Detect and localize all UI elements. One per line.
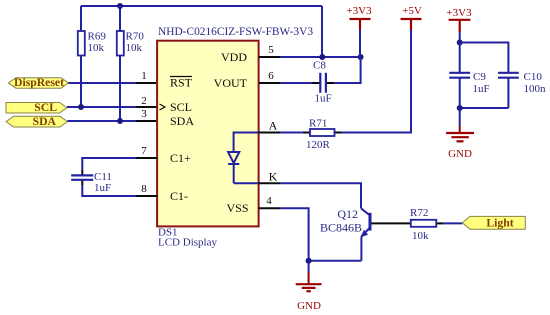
svg-text:DispReset: DispReset (14, 76, 64, 89)
pin name C1+ (170, 151, 191, 165)
svg-text:GND: GND (448, 148, 472, 160)
port SCL (6, 101, 67, 114)
svg-text:10k: 10k (412, 230, 429, 242)
pin number 5 (268, 44, 274, 56)
pin 1 stub (136, 82, 158, 84)
wire GND lead (308, 261, 310, 272)
svg-text:+3V3: +3V3 (446, 7, 472, 19)
pin number 7 (141, 145, 147, 157)
svg-text:C10: C10 (524, 71, 543, 83)
ground GND (right) (446, 126, 474, 160)
junction C9 bottom (457, 105, 463, 111)
svg-text:A: A (269, 119, 278, 133)
wire +3V3 right down to C9 node (459, 32, 461, 43)
svg-text:1: 1 (141, 70, 147, 82)
wire GND2 lead (459, 108, 461, 126)
junction top rail / R70 (117, 3, 123, 9)
capacitor C8 (313, 60, 334, 105)
wire pin6 VOUT to C8 (280, 82, 313, 84)
svg-text:VDD: VDD (221, 50, 247, 64)
svg-text:SDA: SDA (33, 115, 57, 128)
svg-text:6: 6 (268, 70, 274, 82)
pin name RST with overline (170, 76, 193, 90)
pin name VOUT (214, 76, 248, 90)
svg-text:8: 8 (141, 183, 147, 195)
svg-text:1uF: 1uF (94, 182, 111, 194)
pin name SDA (170, 114, 194, 128)
port Light (462, 216, 525, 229)
junction R70/SDA (117, 118, 123, 124)
junction VSS/GND/emitter (306, 258, 312, 264)
pin number 2 (141, 95, 147, 107)
wire top rail from R69/R70 to VDD drop (81, 6, 322, 57)
svg-text:SCL: SCL (34, 101, 57, 114)
pin number 3 (141, 108, 147, 120)
svg-text:+5V: +5V (402, 5, 422, 17)
svg-text:1uF: 1uF (315, 93, 332, 105)
svg-text:R71: R71 (309, 118, 327, 130)
junction C9/C10 top (457, 40, 463, 46)
pin 7 stub (136, 157, 158, 159)
pin K stub (259, 182, 280, 184)
pin number 4 (266, 195, 272, 207)
wire DispReset to pin 1 (68, 82, 136, 84)
wire C9/C10 bottom link (460, 83, 509, 108)
wire C11 to pin8 (82, 185, 136, 196)
svg-text:LCD Display: LCD Display (158, 237, 217, 249)
wire C9/C10 top link (460, 43, 509, 68)
resistor R70 (117, 6, 145, 121)
wire Q12 base to R72 (372, 222, 411, 224)
pin name K (269, 170, 278, 184)
junction VDD / top-rail drop (319, 54, 325, 60)
svg-text:BC846B: BC846B (320, 221, 362, 235)
pin 8 stub (136, 195, 158, 197)
capacitor C11 (71, 170, 112, 194)
svg-text:R70: R70 (126, 31, 145, 43)
pin 6 stub (259, 82, 280, 84)
svg-text:C8: C8 (313, 60, 326, 72)
pin A stub (259, 132, 280, 134)
svg-text:+3V3: +3V3 (346, 5, 372, 17)
svg-text:K: K (269, 170, 278, 184)
wire Q12 emitter down (360, 237, 362, 261)
pin name C1- (170, 189, 188, 203)
svg-text:NHD-C0216CIZ-FSW-FBW-3V3: NHD-C0216CIZ-FSW-FBW-3V3 (158, 26, 313, 38)
pin 4 stub (259, 207, 280, 209)
power +5V (401, 5, 422, 30)
pin name SCL with input chevron (160, 100, 193, 114)
svg-text:Q12: Q12 (337, 207, 358, 221)
svg-text:R69: R69 (88, 31, 107, 43)
wire pinA to R71 (280, 132, 303, 134)
resistor R71 (303, 118, 342, 152)
svg-text:VOUT: VOUT (214, 76, 248, 90)
ground GND (left) (296, 272, 322, 312)
pin 5 stub (259, 56, 280, 58)
pin name A (269, 119, 278, 133)
svg-text:5: 5 (268, 44, 274, 56)
wire +3V3 down to VDD node (359, 30, 361, 57)
pin name VDD (221, 50, 247, 64)
diode backlight LED inside DS1 (228, 133, 259, 184)
junction R69/SCL (78, 104, 84, 110)
wire pinK to Q12 collector (280, 183, 361, 208)
svg-text:C9: C9 (473, 71, 486, 83)
pin number 8 (141, 183, 147, 195)
svg-text:2: 2 (141, 95, 147, 107)
pin 3 stub (136, 120, 158, 122)
svg-text:RST: RST (170, 76, 193, 90)
svg-text:3: 3 (141, 108, 147, 120)
junction VDD / +3V3 / C8 (358, 54, 364, 60)
svg-text:Light: Light (486, 217, 513, 230)
svg-text:SDA: SDA (170, 114, 194, 128)
wire C8 right to VDD node (334, 57, 361, 83)
power +3V3 (right) (446, 7, 472, 32)
pin number 1 (141, 70, 147, 82)
port SDA (6, 115, 67, 128)
capacitor C9 (449, 43, 489, 96)
svg-text:VSS: VSS (226, 201, 248, 215)
svg-text:4: 4 (266, 195, 272, 207)
svg-text:C1-: C1- (170, 189, 188, 203)
wire SCL to pin 2 (67, 106, 136, 108)
svg-text:120R: 120R (306, 139, 331, 151)
svg-text:SCL: SCL (170, 100, 192, 114)
wire pin5 to +3V3 node (280, 56, 361, 58)
pin name VSS (226, 201, 248, 215)
capacitor C10 (498, 67, 546, 95)
svg-text:100n: 100n (524, 83, 547, 95)
wire +5V down to R71 (342, 30, 412, 133)
svg-text:7: 7 (141, 145, 147, 157)
power +3V3 (top) (346, 5, 372, 30)
svg-text:R72: R72 (410, 207, 428, 219)
port DispReset (8, 76, 68, 89)
svg-text:10k: 10k (126, 42, 143, 54)
wire pin4 VSS to GND and emitter (280, 208, 361, 261)
wire pin7 to C11 (82, 158, 136, 170)
resistor R72 (410, 207, 443, 242)
pin number 6 (268, 70, 274, 82)
transistor Q12 BC846B (320, 207, 370, 238)
svg-text:1uF: 1uF (473, 83, 490, 95)
pin 2 stub (136, 106, 158, 108)
svg-text:10k: 10k (88, 42, 105, 54)
resistor R69 (78, 6, 107, 107)
wire SDA to pin 3 (67, 120, 136, 122)
svg-text:GND: GND (297, 300, 321, 312)
wire R72 to Light port (443, 222, 462, 224)
svg-text:C1+: C1+ (170, 151, 191, 165)
IC DS1 NHD-C0216CIZ-FSW-FBW-3V3 LCD display body (157, 26, 313, 249)
